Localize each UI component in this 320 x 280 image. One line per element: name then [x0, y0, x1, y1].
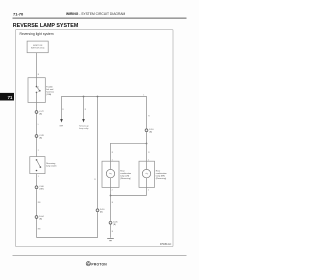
- junction at riser: [97, 96, 99, 98]
- wire: bottom run and riser: [37, 97, 98, 238]
- ground: [107, 237, 114, 239]
- svg-text:2: 2: [38, 150, 39, 152]
- wire stub into box: [36, 78, 38, 87]
- wire through RH lamp: [146, 178, 148, 196]
- wire: ignition switch to fuse box: [36, 53, 38, 78]
- svg-text:(Reversing): (Reversing): [120, 178, 131, 180]
- wire: feed to right lamp: [146, 144, 148, 170]
- connector D-05: [109, 221, 112, 224]
- svg-text:2: 2: [112, 190, 113, 192]
- svg-text:L: L: [38, 124, 39, 126]
- svg-text:(10A): (10A): [46, 93, 51, 96]
- arrow to back-up lamp relay: [82, 119, 85, 123]
- connector D-10 on riser: [96, 209, 99, 212]
- connector F-10 on right drop: [145, 129, 148, 132]
- reversing lamp switch box: [30, 157, 45, 174]
- svg-text:71-70: 71-70: [13, 12, 24, 17]
- wire: switch down to bottom corner: [36, 174, 38, 238]
- svg-text:(B): (B): [149, 132, 152, 134]
- svg-text:2: 2: [148, 190, 149, 192]
- switch blade inside box: [36, 86, 38, 88]
- svg-text:PROTON: PROTON: [91, 262, 107, 266]
- svg-text:3: 3: [38, 91, 39, 93]
- header rule: [13, 17, 187, 20]
- footer logo emblem: [86, 262, 90, 266]
- back-up lamp RH: [139, 161, 155, 187]
- chapter tab: [0, 93, 14, 101]
- svg-text:SWITCH (IG1): SWITCH (IG1): [31, 48, 45, 50]
- svg-text:(B): (B): [39, 218, 42, 220]
- svg-text:MPI: MPI: [60, 126, 64, 128]
- svg-text:Reversing light system: Reversing light system: [20, 32, 54, 36]
- svg-text:(B): (B): [39, 113, 42, 115]
- svg-text:97W80-AC: 97W80-AC: [160, 243, 172, 246]
- svg-text:IGNITION: IGNITION: [33, 45, 43, 47]
- svg-text:1: 1: [148, 160, 149, 162]
- svg-text:(B): (B): [39, 137, 42, 139]
- junction at branch 2: [83, 96, 85, 98]
- connector D-04: [35, 216, 38, 219]
- wire: earth run: [110, 196, 112, 238]
- svg-text:(GR): (GR): [39, 189, 44, 191]
- arrow to MPI: [60, 119, 63, 123]
- svg-text:1: 1: [38, 176, 39, 178]
- svg-text:(Reversing): (Reversing): [156, 178, 167, 180]
- svg-text:REVERSE LAMP SYSTEM: REVERSE LAMP SYSTEM: [13, 23, 79, 29]
- node: lamp feed junction: [146, 143, 148, 145]
- svg-text:71: 71: [8, 95, 13, 100]
- svg-text:lamp relay: lamp relay: [79, 128, 88, 130]
- bus wire: feed rail: [62, 97, 147, 144]
- svg-text:(B): (B): [113, 224, 116, 226]
- ignition switch box IG: [27, 41, 48, 53]
- svg-text:1: 1: [143, 94, 144, 96]
- wire: earth link: [111, 195, 147, 197]
- branch wire to MPI: [83, 97, 85, 122]
- wire: feed to left lamp: [111, 143, 147, 169]
- back-up lamp LH: [102, 161, 119, 187]
- diagram frame: [16, 30, 174, 247]
- wire: fuse box down left column: [36, 103, 38, 157]
- wire through LH lamp: [110, 178, 112, 196]
- svg-text:(B): (B): [100, 212, 103, 214]
- fuse/relay box with internal switch: [28, 78, 45, 103]
- svg-text:WIRING - SYSTEM CIRCUIT DIAGRA: WIRING - SYSTEM CIRCUIT DIAGRAM: [66, 12, 126, 16]
- node: earth junction: [110, 195, 112, 197]
- connector C-66: [35, 186, 38, 189]
- svg-text:1: 1: [112, 160, 113, 162]
- connector C-28: [35, 135, 38, 138]
- svg-text:lamp switch: lamp switch: [46, 165, 56, 168]
- footer rule: [13, 254, 187, 257]
- connector C-72: [35, 111, 38, 114]
